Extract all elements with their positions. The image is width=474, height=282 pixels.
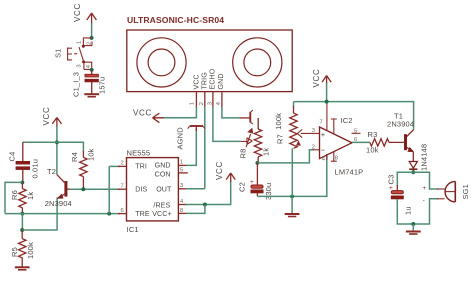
IC NE555 box (118, 149, 188, 235)
wire VCC rail (op-amp to T1) (294, 83, 414, 130)
transducer right (233, 38, 282, 87)
svg-text:7: 7 (121, 183, 124, 189)
transducer left (137, 38, 186, 87)
node junction R8/C2 (255, 161, 259, 165)
svg-text:R3: R3 (368, 130, 378, 139)
wire pin4 GND to AGND (222, 107, 240, 118)
svg-text:8: 8 (180, 208, 183, 214)
node junction gnd rail (290, 194, 294, 198)
svg-text:ECHO: ECHO (209, 68, 217, 89)
svg-text:C4: C4 (8, 152, 17, 162)
svg-text:2: 2 (199, 102, 205, 105)
wire TRE line (5, 213, 120, 215)
svg-text:3: 3 (180, 183, 183, 189)
diode D1 1N4148 (409, 144, 428, 172)
svg-text:330u: 330u (264, 183, 273, 200)
speaker SG1 (423, 181, 471, 203)
svg-text:-: - (423, 198, 425, 204)
node junction S1 top (90, 36, 94, 40)
svg-text:LM741P: LM741P (335, 168, 364, 177)
wire VCC rail to C4 and R4 (23, 142, 84, 151)
svg-text:2N3904: 2N3904 (387, 120, 414, 129)
svg-text:CON: CON (155, 171, 171, 179)
svg-text:R5: R5 (10, 247, 19, 257)
resistor R4 10k (70, 148, 96, 189)
wire OUT to TRIG (186, 188, 205, 190)
wire R6 to R5 (21, 214, 23, 230)
svg-text:SG1: SG1 (461, 184, 470, 199)
pin 3 OUT (178, 188, 187, 190)
pin 2 TRI (118, 165, 127, 167)
pin 3 +IN (309, 132, 319, 134)
svg-text:5: 5 (180, 168, 183, 174)
pin 5 (352, 132, 361, 134)
svg-text:T2: T2 (47, 167, 56, 176)
pin 3 (212, 92, 214, 108)
transistor T1 2N3904 (387, 112, 414, 153)
svg-text:1k: 1k (26, 192, 35, 200)
capacitor C2 330u (237, 163, 273, 200)
svg-text:5: 5 (354, 129, 357, 135)
pin 8 OS2 (331, 152, 337, 162)
pin 6 TRE (118, 213, 127, 215)
power VCC symbol (top-left) (73, 3, 96, 24)
node junction VCC rail op-amp (325, 100, 329, 104)
svg-text:IC2: IC2 (341, 116, 353, 125)
svg-text:7: 7 (320, 120, 323, 126)
svg-text:TRI: TRI (135, 162, 147, 170)
svg-text:AGND: AGND (176, 127, 185, 150)
svg-text:VCC: VCC (312, 69, 321, 88)
pin 7 V+ (326, 104, 328, 131)
svg-text:3: 3 (77, 64, 83, 67)
pin 8 VCC+ (178, 212, 187, 214)
wire VCC to S1 (91, 23, 93, 38)
svg-text:3: 3 (312, 128, 315, 134)
svg-text:+: + (321, 130, 326, 139)
wire GND pin to AGND (186, 128, 196, 165)
capacitor C1_I_3 157u (71, 70, 106, 97)
svg-text:S1: S1 (54, 49, 63, 58)
svg-text:VCC: VCC (42, 107, 51, 126)
wire /RES to VCC (186, 181, 231, 205)
wire pin1 to VCC (161, 107, 197, 118)
wire R8 to -IN (257, 150, 313, 163)
pin 7 DIS (118, 188, 127, 190)
op-amp IC2 LM741P (309, 104, 363, 177)
node junction R4 bottom (81, 187, 85, 191)
wire pin2 TRIG down to 555 OUT (204, 107, 206, 189)
svg-text:R7: R7 (276, 134, 285, 144)
svg-text:2N3904: 2N3904 (45, 199, 72, 208)
capacitor C3 1u (386, 175, 412, 215)
svg-text:VCC: VCC (215, 161, 224, 180)
transistor T2 2N3904 (45, 167, 72, 208)
resistor R6 1k (10, 182, 35, 213)
wire T2 base / DIS (70, 188, 120, 190)
node junction VCC rail (55, 140, 59, 144)
svg-text:R4: R4 (70, 152, 79, 162)
svg-text:R8: R8 (239, 149, 248, 159)
node junction RES/VCC+ (203, 203, 207, 207)
svg-text:−: − (321, 146, 326, 155)
wire output rail bottom (397, 199, 438, 224)
wire left loop (5, 182, 22, 213)
ground (center) (285, 213, 300, 215)
svg-text:GND: GND (217, 73, 225, 89)
module box HC-SR04 (127, 30, 292, 92)
pin 4 /RES (178, 204, 187, 206)
svg-text:10k: 10k (87, 148, 96, 161)
svg-text:8: 8 (335, 156, 338, 162)
pin 2 -IN (313, 149, 320, 151)
ground under C3 (406, 231, 421, 233)
svg-text:R6: R6 (10, 190, 19, 200)
pin 1 OS1 (331, 119, 337, 134)
wire VCC+ (186, 205, 205, 214)
ground under C1 (84, 93, 99, 95)
ground under R5 (15, 266, 30, 268)
switch S1 (54, 38, 93, 70)
power VCC symbol (sensor, pointing left) (133, 109, 164, 123)
svg-text:2: 2 (121, 161, 124, 167)
node junction R5 top (20, 228, 24, 232)
capacitor C4 0.01u (8, 142, 40, 182)
svg-text:+: + (423, 186, 427, 192)
resistor R3 10k (366, 130, 404, 154)
svg-text:C1_I_3: C1_I_3 (71, 72, 80, 97)
svg-text:VCC: VCC (73, 3, 82, 22)
pin 5 CON (178, 172, 187, 174)
svg-text:DIS: DIS (135, 186, 147, 194)
svg-text:1: 1 (77, 41, 83, 44)
power VCC symbol (555) (215, 161, 235, 182)
wire emitter line (22, 198, 57, 231)
svg-text:/RES: /RES (153, 202, 170, 210)
svg-text:2: 2 (312, 145, 315, 151)
node junction TRI-TRE (107, 212, 111, 216)
svg-text:C3: C3 (386, 175, 395, 185)
svg-text:0.01u: 0.01u (31, 159, 40, 179)
power VCC symbol (left block) (42, 107, 62, 128)
wire T1 emitter to diode (412, 152, 414, 162)
node junction diode out (411, 170, 415, 174)
svg-text:1N4148: 1N4148 (420, 144, 429, 171)
wire VCC vertical to T2 collector (56, 126, 58, 175)
svg-text:1k: 1k (262, 148, 271, 156)
svg-text:1u: 1u (404, 206, 413, 215)
trimmer R8 1k (239, 118, 271, 163)
svg-text:VCC+: VCC+ (152, 210, 172, 218)
svg-text:3: 3 (208, 102, 214, 105)
wire output rail top (397, 172, 438, 189)
node junction S1 bottom (90, 68, 94, 72)
pin 2 (204, 92, 206, 108)
wire TRI down (108, 166, 110, 213)
wire C2 bottom rail (257, 154, 326, 196)
svg-text:NE555: NE555 (127, 149, 151, 158)
wire op-amp out (352, 141, 370, 143)
wire gnd stem (291, 196, 293, 213)
pin 4 (221, 92, 223, 108)
svg-text:6: 6 (121, 208, 124, 214)
node junction R6 bottom (20, 212, 24, 216)
ground AGND (under sensor) (176, 126, 206, 150)
svg-text:TRIG: TRIG (201, 72, 209, 89)
wire gnd stem right (412, 224, 414, 231)
svg-text:IC1: IC1 (127, 225, 139, 234)
svg-text:ULTRASONIC-HC-SR04: ULTRASONIC-HC-SR04 (127, 15, 224, 25)
svg-text:TRE: TRE (135, 210, 150, 218)
power VCC symbol (op-amp) (312, 69, 331, 88)
svg-text:VCC: VCC (192, 74, 200, 89)
pin 4 V- (326, 155, 328, 160)
wire TRI stub (109, 165, 120, 167)
svg-text:GND: GND (155, 162, 171, 170)
trimmer R7 100k (274, 102, 309, 197)
svg-text:C2: C2 (237, 182, 246, 192)
svg-text:1: 1 (190, 102, 196, 105)
svg-text:100k: 100k (26, 242, 35, 259)
wire op-amp power (326, 102, 328, 104)
pin 1 (195, 92, 197, 108)
svg-text:157u: 157u (98, 77, 107, 94)
ground AGND (rotated, at sensor GND) (240, 110, 253, 124)
svg-text:100k: 100k (274, 113, 283, 130)
pin 1 GND (178, 164, 187, 166)
svg-text:1: 1 (180, 160, 183, 166)
svg-text:OUT: OUT (156, 186, 172, 194)
svg-text:VCC: VCC (133, 109, 152, 118)
node junction C4/R6 (20, 180, 24, 184)
node junction gnd right (411, 222, 415, 226)
wire pin3 ECHO down to R8 wiper (213, 107, 241, 142)
svg-text:2: 2 (86, 42, 92, 45)
svg-text:10k: 10k (366, 145, 379, 154)
resistor R5 100k (10, 230, 35, 267)
